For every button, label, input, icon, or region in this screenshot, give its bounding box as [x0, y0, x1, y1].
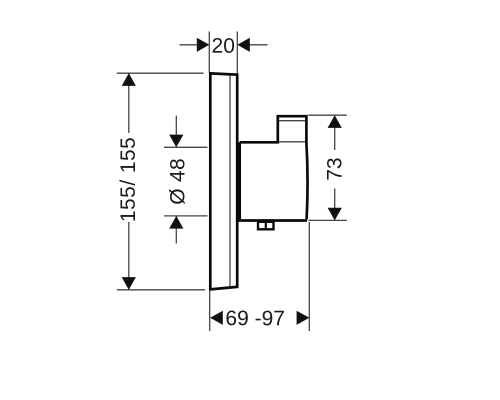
svg-text:155/ 155: 155/ 155 [117, 137, 140, 222]
svg-text:20: 20 [212, 35, 235, 58]
svg-text:Ø 48: Ø 48 [167, 158, 190, 205]
svg-text:69 -97: 69 -97 [225, 307, 285, 330]
svg-text:73: 73 [323, 157, 346, 180]
